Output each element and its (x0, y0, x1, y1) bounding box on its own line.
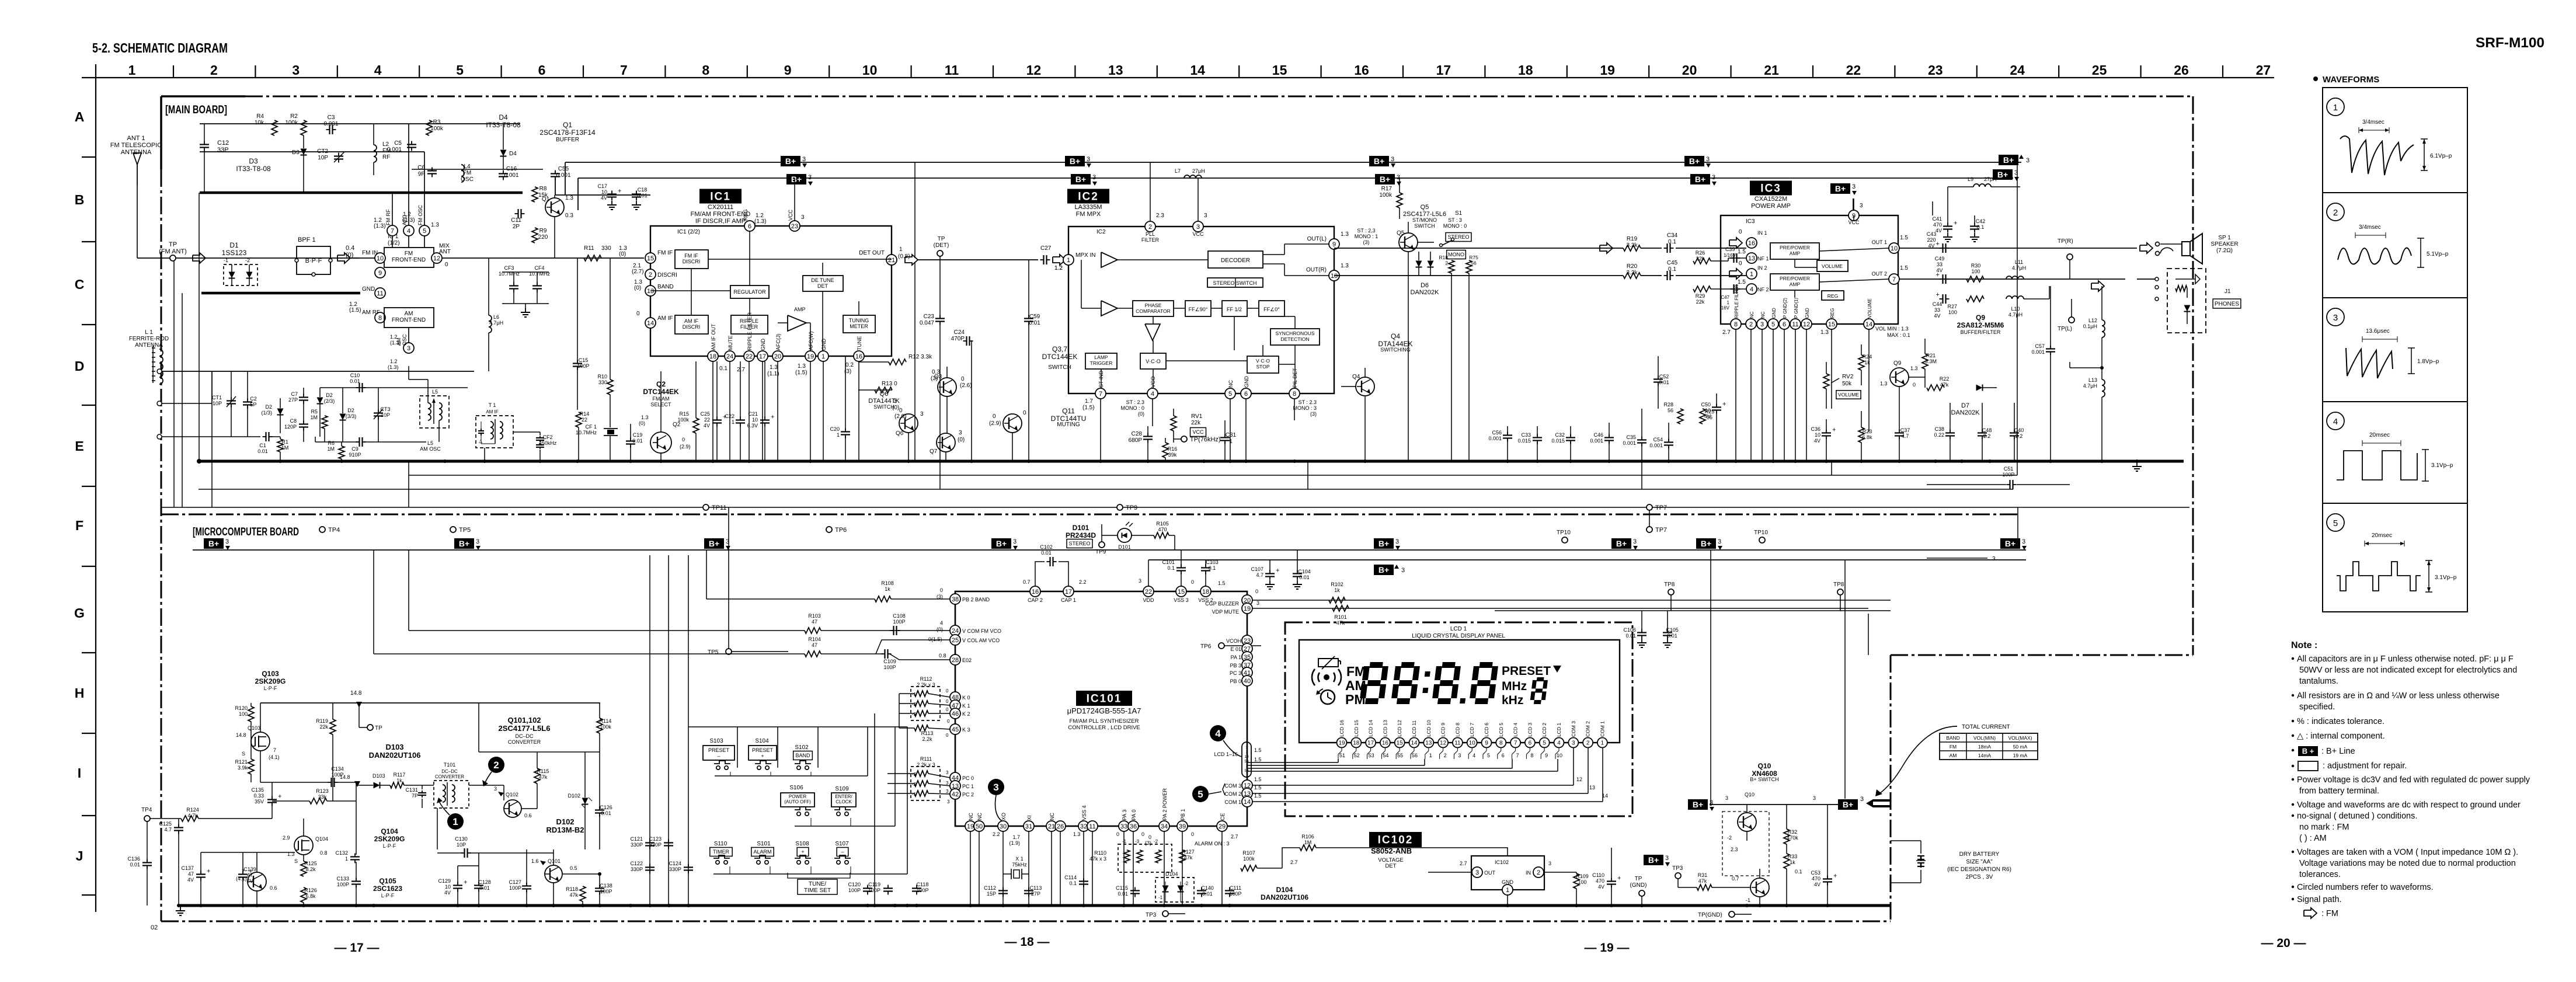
svg-text:19: 19 (807, 353, 814, 360)
svg-text:3.3k: 3.3k (1627, 270, 1638, 276)
note line 19 (2292, 883, 2434, 892)
svg-text:3: 3 (1665, 855, 1669, 862)
svg-text:IC1: IC1 (710, 191, 731, 203)
svg-text:C31: C31 (1226, 432, 1237, 438)
svg-text:2.7: 2.7 (737, 367, 745, 373)
svg-text:μPD1724GB-555-1A7: μPD1724GB-555-1A7 (1067, 706, 1141, 715)
svg-text:PHONES: PHONES (2215, 301, 2240, 308)
svg-text:VOL(MAX): VOL(MAX) (2008, 735, 2032, 741)
svg-text:1: 1 (1245, 746, 1248, 750)
svg-text:Q3: Q3 (934, 374, 942, 380)
svg-text:680P: 680P (1129, 437, 1143, 444)
svg-text:GND: GND (362, 286, 375, 292)
AM front-end box (384, 308, 434, 328)
svg-text:20: 20 (774, 353, 781, 360)
svg-text:(2.9): (2.9) (989, 420, 1001, 427)
svg-text:NF 2: NF 2 (1757, 287, 1769, 292)
svg-text:VSS 4: VSS 4 (1081, 805, 1087, 820)
wire q104 rail (201, 852, 295, 853)
svg-text:[MAIN BOARD]: [MAIN BOARD] (165, 104, 227, 116)
note line 8 (2292, 746, 2355, 756)
svg-text:OUT 1: OUT 1 (1872, 239, 1887, 245)
wire right edge verticals (1845, 604, 1891, 805)
svg-text:ST : 2,3: ST : 2,3 (1357, 228, 1375, 234)
B+ label rail2 right end (1993, 169, 2019, 181)
svg-text:0.001: 0.001 (1488, 436, 1502, 441)
svg-text:3: 3 (802, 156, 806, 163)
svg-text:52: 52 (1354, 753, 1360, 758)
VOLUME box (1817, 260, 1848, 271)
capacitor C41 (1932, 215, 1957, 242)
IC1 pin 23 VCC (788, 178, 805, 231)
svg-text:0(1.5): 0(1.5) (928, 636, 942, 642)
svg-text:3: 3 (808, 174, 812, 181)
svg-text:C109: C109 (883, 659, 896, 664)
svg-text:20msec: 20msec (2372, 532, 2392, 539)
waveform 1 number (2327, 98, 2344, 116)
svg-text:8: 8 (1734, 321, 1738, 328)
svg-text:29: 29 (1219, 823, 1226, 830)
svg-text:1: 1 (1727, 300, 1730, 305)
capacitor C123 330P (649, 836, 673, 849)
svg-text:C18: C18 (638, 187, 648, 193)
svg-text:1: 1 (1429, 753, 1432, 758)
svg-text:18mA: 18mA (1978, 744, 1992, 750)
svg-text:C136: C136 (127, 856, 140, 862)
svg-text:ST : 2.3: ST : 2.3 (1126, 399, 1144, 405)
svg-text:+: + (723, 414, 726, 421)
svg-text:10: 10 (1557, 753, 1562, 758)
label Q11 muting (1051, 407, 1087, 428)
svg-text:C121: C121 (630, 836, 643, 842)
svg-text:A: A (75, 109, 85, 124)
svg-text:7: 7 (1514, 740, 1517, 747)
DECODER box (1208, 251, 1263, 268)
micro B+ right rail (1711, 792, 1845, 805)
capacitor C1 0.01 (257, 432, 280, 454)
waveforms title (2313, 75, 2379, 85)
svg-text:DC–DC: DC–DC (441, 769, 458, 774)
svg-text:K 1: K 1 (962, 703, 970, 709)
svg-text:L13: L13 (2088, 377, 2097, 383)
svg-text:1.5: 1.5 (1738, 249, 1746, 255)
svg-text:R113: R113 (921, 730, 934, 736)
svg-text:R22: R22 (1940, 376, 1950, 382)
svg-text:5: 5 (1228, 391, 1232, 398)
svg-text:CLOCK: CLOCK (836, 799, 852, 805)
svg-text:10P: 10P (318, 155, 328, 161)
pin 8 AM RF (349, 301, 385, 323)
svg-text:LCD 15: LCD 15 (1353, 720, 1359, 737)
svg-text:2.7: 2.7 (1290, 859, 1298, 865)
svg-text:Q6: Q6 (880, 391, 889, 398)
svg-text:R9: R9 (539, 228, 547, 234)
svg-text:C126: C126 (600, 805, 612, 810)
capacitor C111 100P (1225, 885, 1242, 897)
svg-text:CAP 2: CAP 2 (1028, 597, 1043, 603)
svg-text:-1: -1 (912, 692, 917, 697)
svg-text:R117: R117 (394, 772, 406, 778)
svg-text:-2: -2 (912, 782, 917, 787)
svg-text:100k: 100k (600, 724, 611, 730)
svg-text:C135: C135 (251, 787, 264, 793)
wire mesh left verticals (174, 193, 212, 507)
svg-text:16: 16 (1354, 62, 1369, 78)
svg-text:FM: FM (463, 170, 471, 176)
svg-text:3: 3 (946, 770, 949, 775)
svg-text:TUNE/: TUNE/ (809, 881, 826, 887)
capacitor C137 (181, 852, 210, 906)
IC102 box (1471, 856, 1544, 890)
black ref 4 (1210, 725, 1241, 757)
svg-text:3: 3 (1572, 740, 1575, 747)
main board outline top edge (161, 95, 2193, 97)
svg-text:TP8: TP8 (1833, 581, 1844, 588)
svg-text:ST : 3: ST : 3 (1448, 217, 1462, 223)
svg-text:33: 33 (1937, 262, 1943, 267)
heavy bus row B (200, 191, 523, 194)
svg-text:B+: B+ (1701, 539, 1711, 548)
svg-text:1: 1 (452, 816, 458, 827)
label Q9 buffer filter (1957, 314, 2004, 335)
svg-text:(0): (0) (958, 437, 965, 443)
svg-text:C45: C45 (1667, 260, 1678, 266)
resistor R115 47k (522, 752, 549, 849)
svg-text:R108: R108 (881, 580, 894, 586)
wire C55 feed (555, 178, 650, 195)
svg-text:7: 7 (391, 228, 394, 235)
transistor Q102 (494, 786, 532, 819)
svg-text:R106: R106 (1301, 834, 1314, 840)
svg-text:XO: XO (1001, 813, 1007, 820)
svg-text:1: 1 (732, 419, 734, 425)
svg-text:S101: S101 (757, 841, 771, 847)
PRE/POWER AMP 2 box (1770, 274, 1819, 290)
svg-text:3: 3 (292, 62, 300, 78)
svg-text:39k: 39k (1168, 452, 1177, 458)
svg-text:DAN202UT106: DAN202UT106 (1261, 893, 1308, 901)
svg-text:47k: 47k (569, 892, 578, 898)
B+ label q10 left (1688, 799, 1714, 811)
svg-text:27μH: 27μH (1192, 168, 1205, 174)
svg-text:(3): (3) (1145, 840, 1151, 846)
svg-text:C139: C139 (243, 866, 256, 872)
svg-text:ALARM ON : 3: ALARM ON : 3 (1195, 841, 1230, 847)
TP(GND) label bottom (1698, 911, 1752, 918)
TP4 micro (141, 807, 161, 821)
svg-text:R109: R109 (1576, 873, 1589, 879)
resistor R119 22k (316, 703, 336, 801)
svg-text:C113: C113 (1030, 885, 1042, 891)
svg-text:2P: 2P (513, 224, 520, 230)
svg-text:0: 0 (1023, 410, 1026, 416)
svg-text:C24: C24 (954, 329, 965, 336)
note line 5 (2299, 702, 2335, 712)
svg-text:K 2: K 2 (962, 711, 970, 717)
svg-text:TP: TP (375, 725, 382, 732)
svg-text:3: 3 (1860, 203, 1863, 209)
svg-text:BAND: BAND (657, 284, 674, 290)
svg-text:K 3: K 3 (962, 727, 970, 733)
svg-text:V COM FM VCO: V COM FM VCO (962, 628, 1001, 634)
svg-text:23: 23 (1928, 62, 1943, 78)
capacitor C109 100P (876, 649, 950, 670)
wire Q4 (1341, 368, 1365, 461)
TP FM ANT (159, 241, 187, 261)
coil L6 4.7uH (489, 258, 503, 371)
svg-text:0.01: 0.01 (1625, 633, 1636, 639)
svg-text:TP4: TP4 (141, 807, 152, 813)
pin 25 VCOL (928, 635, 1000, 645)
svg-text:4V: 4V (1814, 882, 1820, 887)
wire am osc bottom (315, 437, 316, 442)
svg-text:(3): (3) (1310, 411, 1317, 417)
capacitor CF3 CF4 (499, 258, 551, 317)
svg-text:50: 50 (976, 823, 983, 830)
svg-text:C17: C17 (597, 183, 607, 189)
capacitor C51 100P (1927, 438, 2070, 489)
svg-text:+: + (464, 879, 467, 886)
svg-text:C39: C39 (1725, 246, 1735, 252)
svg-text:02: 02 (151, 924, 158, 931)
svg-text:7: 7 (1892, 276, 1896, 283)
resistor R29 22k (1693, 286, 1746, 305)
svg-text:10P: 10P (457, 842, 466, 848)
transistor Q10a (1722, 805, 1769, 876)
wire am row bottom (162, 436, 260, 437)
svg-text:33k: 33k (318, 794, 327, 800)
TP 76kHz (1174, 436, 1221, 443)
svg-text:9: 9 (1485, 740, 1488, 747)
svg-text:MAX : 0.1: MAX : 0.1 (1887, 332, 1910, 338)
svg-text:C123: C123 (649, 836, 662, 842)
svg-text:0.8: 0.8 (320, 850, 328, 856)
waveform 3 number (2327, 308, 2344, 326)
signal arrow MPX (1053, 255, 1066, 271)
phones jack J1 (2137, 269, 2241, 333)
IC102 pin IN (1526, 848, 1576, 877)
svg-text:FM IN: FM IN (362, 250, 378, 256)
svg-text:38: 38 (952, 596, 959, 603)
svg-text:3: 3 (1204, 213, 1207, 219)
svg-text:Q1: Q1 (542, 196, 550, 203)
svg-text:L9: L9 (1968, 176, 1973, 182)
svg-text:R11: R11 (584, 245, 594, 252)
svg-text:TP5: TP5 (459, 527, 471, 534)
note line 7 (2292, 732, 2385, 741)
svg-text:+: + (1936, 291, 1940, 298)
svg-text:3: 3 (1401, 567, 1405, 574)
svg-text:27μH: 27μH (1984, 176, 1997, 182)
svg-text:Note :: Note : (2291, 640, 2317, 650)
svg-text:COM 3: COM 3 (1571, 721, 1576, 737)
svg-text:PA 2 POWER: PA 2 POWER (1162, 788, 1168, 820)
diode D3 (292, 135, 307, 193)
svg-text:100: 100 (1971, 269, 1980, 274)
svg-text:E: E (75, 438, 83, 454)
coil L7 27uH (1175, 168, 1205, 178)
svg-text:42: 42 (952, 791, 959, 798)
svg-text:FRONT-END: FRONT-END (392, 257, 426, 263)
R111 block (911, 756, 940, 800)
capacitor C119 100P (868, 882, 893, 895)
svg-text:27P: 27P (1031, 891, 1040, 897)
resistor R13 0 (875, 381, 899, 411)
svg-text:B+: B+ (791, 175, 802, 184)
LED D101 label (1066, 524, 1096, 548)
svg-text:B+: B+ (1689, 156, 1700, 166)
svg-text:R33: R33 (1788, 854, 1798, 859)
svg-text:IC2: IC2 (1096, 229, 1106, 235)
svg-text:DC–DC: DC–DC (515, 733, 534, 739)
wire antenna row (137, 257, 359, 259)
IC101 K pins (946, 688, 970, 738)
waveform 4 number (2327, 412, 2344, 430)
svg-text:1.6: 1.6 (531, 858, 539, 864)
resistor R4 (255, 113, 277, 135)
svg-text:C32: C32 (1555, 432, 1565, 438)
svg-text:(4.1): (4.1) (269, 754, 280, 760)
svg-text:(1.3): (1.3) (390, 340, 401, 346)
svg-text:2: 2 (1445, 260, 1448, 266)
svg-text:47: 47 (188, 871, 194, 877)
svg-text:56: 56 (1412, 753, 1418, 758)
capacitor C54 (1649, 437, 1673, 449)
waveform 1 time label (2359, 119, 2389, 133)
svg-text:LCD 11: LCD 11 (1411, 720, 1417, 737)
svg-text:3: 3 (1992, 556, 1996, 562)
capacitor CF2 (513, 432, 557, 461)
LCD small digit (1530, 677, 1548, 704)
capacitor C57 (2031, 286, 2055, 461)
capacitor C136 (127, 821, 152, 906)
LCD com wires (1252, 748, 1608, 802)
svg-text:+: + (278, 793, 281, 800)
svg-text:0: 0 (1191, 579, 1194, 585)
svg-text:3: 3 (1087, 156, 1090, 163)
wire am row mid (162, 371, 212, 403)
capacitor CF1 (576, 424, 618, 461)
svg-text:8: 8 (702, 62, 709, 78)
svg-text:470P: 470P (951, 336, 965, 342)
capacitor C114 (1064, 875, 1088, 888)
svg-text:+: + (771, 414, 774, 421)
coil L2 FM RF (374, 124, 391, 175)
antenna ANT1 symbol (133, 153, 141, 258)
svg-text:39: 39 (1179, 823, 1186, 830)
svg-text:Q101,102: Q101,102 (507, 716, 541, 725)
svg-text:TP9: TP9 (1126, 504, 1137, 511)
diode D1 label (222, 241, 247, 257)
IC3 bottom pins (1722, 284, 1910, 338)
svg-text:6.3V: 6.3V (747, 423, 758, 429)
svg-text:3: 3 (1395, 538, 1399, 545)
svg-text:FF 1/2: FF 1/2 (1227, 307, 1242, 312)
svg-text:B+ SWITCH: B+ SWITCH (1750, 776, 1778, 782)
svg-text:5.1Vp–p: 5.1Vp–p (2427, 251, 2449, 257)
IC1 pin 15 FM IF (645, 250, 673, 263)
svg-text:PRE/POWER: PRE/POWER (1780, 276, 1810, 281)
svg-text:B·P·F: B·P·F (305, 257, 322, 264)
svg-text:Q9: Q9 (1893, 360, 1902, 367)
svg-text:L10: L10 (2011, 306, 2020, 312)
svg-text:13: 13 (1425, 740, 1432, 747)
svg-text:0: 0 (1141, 831, 1144, 837)
svg-text:C7: C7 (291, 391, 298, 397)
diode D103 (356, 773, 390, 801)
wires matrix to IC101 (875, 713, 911, 727)
svg-text:0: 0 (947, 719, 950, 724)
svg-text:100P: 100P (577, 363, 589, 369)
svg-text:(1.5): (1.5) (1082, 405, 1095, 411)
IC1 box (650, 226, 892, 356)
matrix wires h2 (795, 818, 895, 826)
svg-text:5: 5 (1543, 740, 1546, 747)
svg-text:RIPPLE FILTER: RIPPLE FILTER (747, 312, 753, 350)
svg-text:33P: 33P (217, 147, 229, 154)
resistor R33 1k (1784, 854, 1802, 906)
svg-text:X 1: X 1 (1015, 856, 1024, 862)
svg-text:IC1 (2/2): IC1 (2/2) (677, 229, 700, 235)
note line 17 (2299, 859, 2516, 868)
svg-text:PLL: PLL (1146, 231, 1155, 237)
svg-text:LCD 1–16: LCD 1–16 (1214, 751, 1238, 757)
wire mesh bus links (409, 162, 2017, 507)
page number 18 (1004, 935, 1049, 949)
svg-text:31: 31 (1025, 823, 1032, 830)
IC2 OUT L (1263, 231, 1349, 255)
svg-text:0.01: 0.01 (632, 438, 643, 444)
svg-text:DTC144EK: DTC144EK (1042, 353, 1078, 361)
note line 2 (2299, 666, 2517, 675)
coil L10 (2006, 286, 2049, 318)
svg-text:4.7μH: 4.7μH (2008, 312, 2022, 318)
svg-text:100P: 100P (600, 889, 612, 894)
svg-text:C2: C2 (250, 396, 257, 402)
capacitor C140 (1197, 885, 1214, 897)
svg-text:B+: B+ (1380, 175, 1390, 184)
svg-text:6: 6 (538, 62, 546, 78)
waveform 2 number (2327, 203, 2344, 221)
svg-text:3: 3 (959, 430, 962, 436)
pin 24 VCOM (937, 620, 1001, 636)
svg-text:Q104: Q104 (381, 827, 398, 835)
switch S104 PRESET+ (749, 738, 777, 769)
micro B+ label #5 (1374, 538, 1400, 550)
transistor Q4 (1352, 374, 1374, 396)
svg-text:C55: C55 (558, 166, 569, 172)
svg-text:26: 26 (2174, 62, 2189, 78)
coil L5 AM OSC (420, 389, 449, 452)
svg-text:1: 1 (899, 246, 903, 253)
signal arrow to IN1 (1600, 243, 1613, 253)
svg-text:15: 15 (647, 255, 654, 262)
svg-text:COMPARATOR: COMPARATOR (1136, 308, 1171, 314)
wire row 814 (409, 475, 2017, 476)
svg-text:–: – (717, 753, 720, 759)
svg-text:25: 25 (952, 637, 959, 644)
svg-text:DISCRI: DISCRI (683, 324, 701, 330)
svg-text:VOLUME: VOLUME (1822, 263, 1843, 269)
wire TP8 row (1495, 610, 1891, 611)
waveform panel box (2323, 88, 2467, 612)
svg-text:LCD 3: LCD 3 (1527, 723, 1533, 737)
svg-text:(1.3): (1.3) (388, 364, 399, 370)
label Q4 switching (1378, 332, 1412, 353)
svg-text:R29: R29 (1696, 293, 1705, 299)
svg-text:4V: 4V (1936, 228, 1942, 234)
svg-text:PB 0: PB 0 (1230, 678, 1241, 684)
